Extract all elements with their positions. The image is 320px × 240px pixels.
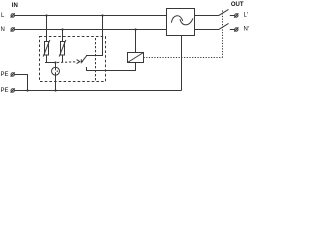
svg-text:IN: IN	[12, 3, 18, 9]
wire varistor common	[45, 62, 56, 64]
wire PE bus	[14, 90, 181, 92]
terminal N input	[11, 27, 15, 31]
node N-coil junction	[134, 28, 136, 30]
node L-varistor junction	[45, 14, 47, 16]
relay coil K1	[128, 53, 144, 63]
wire varistor2 drop	[62, 30, 64, 42]
wire PE upper link	[14, 75, 27, 91]
wire N' terminal stub	[230, 29, 235, 31]
filter unit U1	[167, 9, 195, 36]
wire GDT top stub	[55, 63, 57, 68]
wire N rail input	[14, 29, 166, 31]
terminal L' output	[234, 13, 238, 17]
mechanical linkage vertical (dashed)	[95, 38, 97, 82]
disconnect switch pivot dot	[81, 61, 83, 63]
wire L' terminal stub	[230, 15, 235, 17]
svg-text:L′: L′	[244, 13, 249, 19]
node PE link junction	[26, 89, 28, 91]
output switch S2 blade (N)	[219, 23, 229, 29]
terminal N' output	[234, 27, 238, 31]
node GDT-bus junction	[54, 89, 56, 91]
disconnect switch blade	[82, 56, 87, 62]
wire L rail output	[195, 15, 219, 17]
linkage arrowhead	[77, 60, 80, 64]
varistor RV1	[43, 40, 50, 57]
terminal L input	[11, 13, 15, 17]
wire upper contact to L	[86, 16, 103, 56]
svg-text:PE: PE	[1, 88, 9, 94]
varistor RV2	[59, 40, 66, 57]
node L-switch junction	[101, 14, 103, 16]
wire varistor1 stub	[46, 55, 48, 63]
svg-text:N′: N′	[244, 27, 250, 33]
wire N rail output	[195, 29, 219, 31]
wire varistor1 drop	[46, 16, 48, 42]
svg-text:OUT: OUT	[231, 2, 244, 8]
svg-text:N: N	[1, 27, 5, 33]
wire filter ground	[181, 36, 183, 91]
gas discharge tube F1	[52, 67, 60, 75]
output switch S1 blade (L)	[219, 9, 229, 15]
disconnect switch pivot bar	[80, 59, 82, 63]
svg-text:L: L	[1, 13, 5, 19]
terminal PE lower	[11, 88, 15, 92]
terminal PE upper	[11, 72, 15, 76]
wire L rail input	[14, 15, 166, 17]
mechanical linkage from varistors (dashed)	[57, 61, 76, 64]
wire GDT bottom stub	[55, 75, 57, 90]
mechanical linkage coil to output switches (dashed)	[144, 57, 223, 59]
wire coil top pin	[135, 30, 137, 53]
node GDT junction	[54, 61, 56, 63]
node N-varistor junction	[61, 28, 63, 30]
svg-text:PE: PE	[1, 72, 9, 78]
wire varistor2 stub	[62, 55, 64, 63]
mechanical linkage output vertical (dashed)	[222, 11, 224, 58]
wire lower contact to coil	[87, 63, 136, 71]
SPD module dashed box	[40, 37, 106, 82]
